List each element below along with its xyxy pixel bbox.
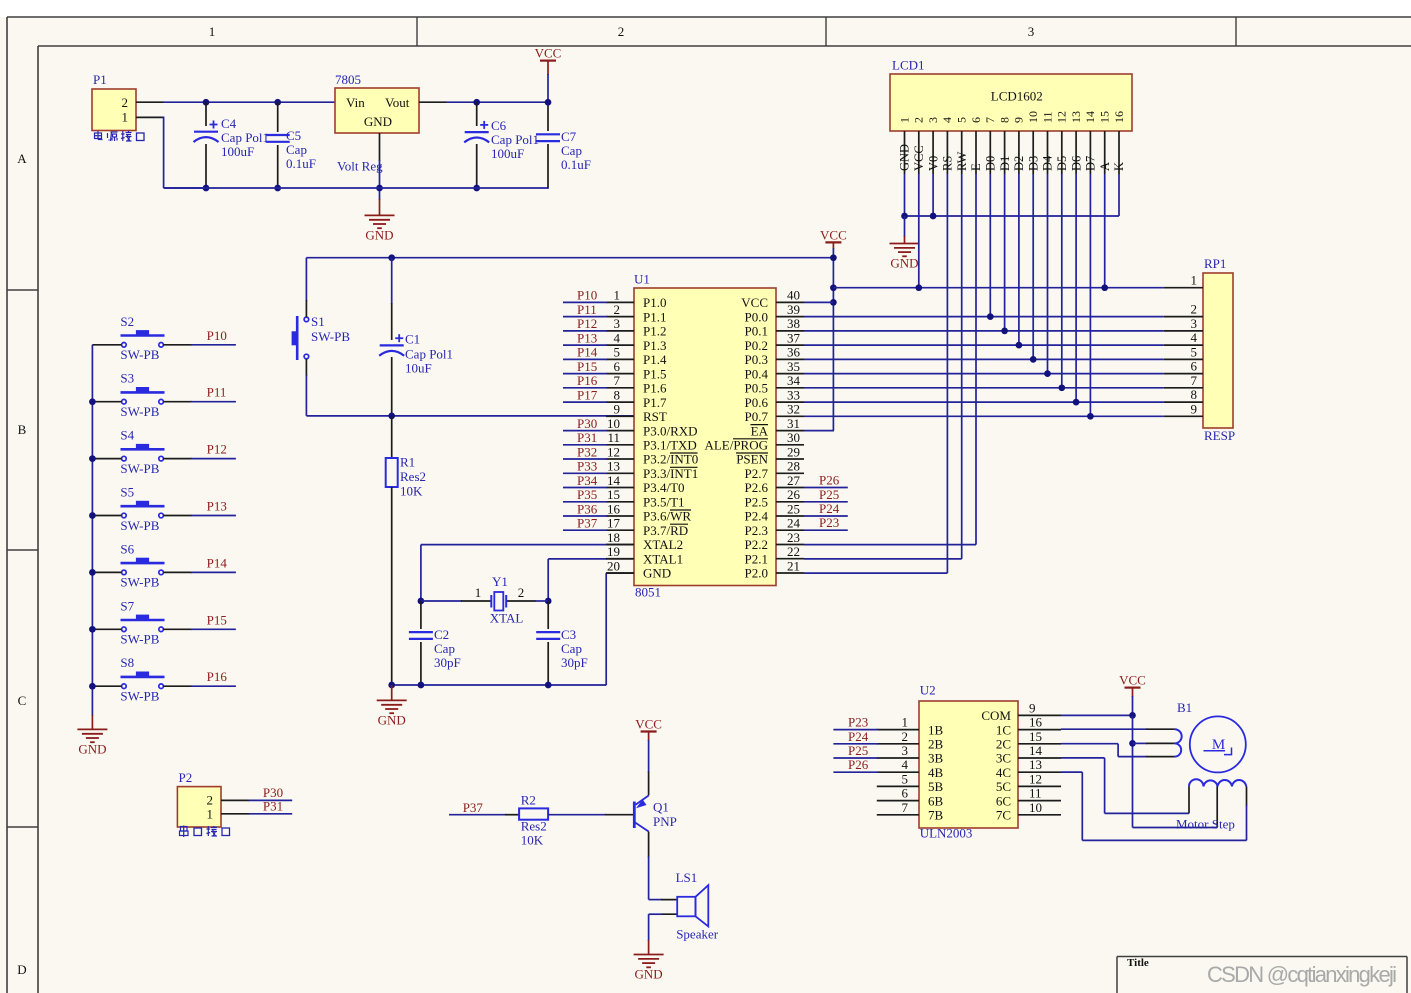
svg-text:7: 7 xyxy=(1191,373,1198,388)
svg-text:P1.0: P1.0 xyxy=(643,295,666,310)
junction C6 top xyxy=(473,99,480,106)
wire pin40 VCC xyxy=(804,301,833,303)
switch S5 xyxy=(120,485,164,533)
svg-text:18: 18 xyxy=(607,530,620,545)
wire net P37 xyxy=(563,516,607,531)
svg-text:13: 13 xyxy=(1029,757,1042,772)
svg-text:P37: P37 xyxy=(577,516,598,531)
svg-text:XTAL: XTAL xyxy=(490,610,524,625)
pin 2 U1 xyxy=(606,302,666,324)
svg-text:P26: P26 xyxy=(819,473,840,488)
svg-text:S2: S2 xyxy=(120,314,134,329)
wire VCC to RP1 pin1 xyxy=(833,287,1163,289)
wire net P23 xyxy=(804,515,848,530)
svg-text:VCC: VCC xyxy=(820,227,847,242)
svg-text:P2.0: P2.0 xyxy=(745,566,768,581)
svg-text:D2: D2 xyxy=(1012,156,1026,171)
junction rail S7 xyxy=(89,626,96,633)
wire S1 bottom to RST xyxy=(306,359,634,416)
svg-text:15: 15 xyxy=(607,487,620,502)
wire net P37 xyxy=(449,800,519,815)
wire 3C to coil xyxy=(1061,758,1189,814)
svg-text:P1.7: P1.7 xyxy=(643,395,667,410)
wire net P25 xyxy=(833,743,878,758)
svg-text:V0: V0 xyxy=(926,156,940,171)
wire net P31 xyxy=(221,799,292,814)
pin 8 U1 xyxy=(606,387,667,409)
svg-text:C1: C1 xyxy=(405,332,420,347)
svg-text:D4: D4 xyxy=(1041,155,1055,171)
svg-text:0.1uF: 0.1uF xyxy=(286,156,316,171)
switch S6 xyxy=(120,541,164,589)
svg-text:S6: S6 xyxy=(120,541,134,556)
svg-text:D1: D1 xyxy=(998,156,1012,171)
svg-text:P31: P31 xyxy=(263,799,283,814)
svg-text:9: 9 xyxy=(1012,117,1026,123)
wire S8 left xyxy=(92,685,121,687)
svg-text:26: 26 xyxy=(787,487,801,502)
svg-text:7805: 7805 xyxy=(335,72,361,87)
pin 13 LCD1 xyxy=(1069,111,1083,174)
net label P14 xyxy=(207,555,228,570)
motor coil xyxy=(1189,779,1247,827)
junction gnd rail left xyxy=(388,682,395,689)
pin 6 RP1 xyxy=(1164,359,1203,374)
svg-text:5: 5 xyxy=(902,771,909,786)
svg-text:R1: R1 xyxy=(400,455,415,470)
junction rail S6 xyxy=(89,569,96,576)
junction D6 P0.6 xyxy=(1073,399,1080,406)
svg-text:P12: P12 xyxy=(207,442,227,457)
wire P2.2 to LCD E xyxy=(804,174,976,545)
svg-text:6B: 6B xyxy=(928,793,944,808)
wire center tap leg xyxy=(1133,742,1175,744)
wire S7 left xyxy=(92,628,121,630)
wire LCD D2 down xyxy=(1018,174,1020,345)
junction VCC pin40 xyxy=(830,299,837,306)
pin 40 U1 xyxy=(741,288,804,310)
pin 3 LCD1 xyxy=(926,117,940,174)
wire net P36 xyxy=(563,501,607,516)
pin 1 RP1 xyxy=(1164,273,1203,288)
svg-text:6: 6 xyxy=(614,359,621,374)
svg-text:13: 13 xyxy=(607,459,620,474)
svg-text:P16: P16 xyxy=(577,373,598,388)
svg-text:4: 4 xyxy=(940,117,954,123)
svg-text:1C: 1C xyxy=(996,722,1011,737)
svg-text:SW-PB: SW-PB xyxy=(120,575,159,590)
svg-text:8: 8 xyxy=(614,387,621,402)
pin 12 U1 xyxy=(606,444,698,466)
svg-text:11: 11 xyxy=(1040,111,1054,123)
svg-text:32: 32 xyxy=(787,402,800,417)
pin 13 U2 xyxy=(996,757,1061,780)
svg-text:P25: P25 xyxy=(819,487,839,502)
pin 4 RP1 xyxy=(1164,330,1203,345)
wire net P34 xyxy=(563,473,607,488)
capacitor C6 xyxy=(464,102,539,188)
pin 1 U2 xyxy=(877,715,944,738)
svg-text:S1: S1 xyxy=(311,314,325,329)
svg-text:2: 2 xyxy=(902,729,909,744)
net label P13 xyxy=(207,499,227,514)
svg-text:B: B xyxy=(18,422,27,437)
svg-text:P2.6: P2.6 xyxy=(745,480,769,495)
pin 30 U1 xyxy=(704,430,804,452)
junction C4 top xyxy=(203,99,210,106)
svg-text:P26: P26 xyxy=(848,757,869,772)
speaker LS1 xyxy=(649,870,719,941)
svg-text:1: 1 xyxy=(207,806,214,821)
svg-text:23: 23 xyxy=(787,530,800,545)
junction LCD gnd pin1 xyxy=(901,213,908,220)
svg-text:E: E xyxy=(969,163,983,171)
junction reg GND xyxy=(376,185,383,192)
wire P0.1 row xyxy=(804,330,1164,332)
ground LCD xyxy=(890,216,920,271)
wire net P24 xyxy=(804,501,848,516)
svg-text:P11: P11 xyxy=(577,302,597,317)
junction rail S5 xyxy=(89,512,96,519)
svg-text:6: 6 xyxy=(969,117,983,123)
switch S3 xyxy=(120,371,164,419)
svg-text:P23: P23 xyxy=(848,715,868,730)
pin 3 RP1 xyxy=(1164,316,1203,331)
svg-text:XTAL1: XTAL1 xyxy=(643,551,683,566)
svg-text:P37: P37 xyxy=(463,800,484,815)
junction D0 P0.0 xyxy=(987,313,994,320)
capacitor C4 xyxy=(194,102,270,188)
svg-text:2: 2 xyxy=(122,95,129,110)
wire net P15 xyxy=(163,628,236,630)
svg-text:K: K xyxy=(1112,162,1126,171)
zone ticks left xyxy=(7,290,38,827)
svg-text:2: 2 xyxy=(1191,302,1198,317)
pin 3 U2 xyxy=(877,743,944,766)
pin 4 U1 xyxy=(606,330,666,352)
svg-text:RP1: RP1 xyxy=(1204,256,1226,271)
svg-text:D5: D5 xyxy=(1055,156,1069,171)
pin 22 U1 xyxy=(745,544,804,566)
svg-text:4: 4 xyxy=(1191,330,1198,345)
svg-text:2: 2 xyxy=(207,793,214,808)
svg-text:15: 15 xyxy=(1098,111,1112,123)
svg-text:CSDN @cqtianxingkeji: CSDN @cqtianxingkeji xyxy=(1207,962,1397,987)
regulator 7805 xyxy=(335,72,419,174)
svg-text:10K: 10K xyxy=(400,484,423,499)
svg-text:4C: 4C xyxy=(996,765,1011,780)
wire LCD D7 down xyxy=(1089,174,1091,416)
svg-text:8: 8 xyxy=(997,117,1011,123)
svg-text:24: 24 xyxy=(787,516,801,531)
wire net P15 xyxy=(563,359,607,374)
svg-text:P31: P31 xyxy=(577,430,597,445)
junction LCD VCC xyxy=(915,284,922,291)
svg-text:P24: P24 xyxy=(819,501,840,516)
svg-text:P3.2/INT0: P3.2/INT0 xyxy=(643,452,698,467)
svg-text:P15: P15 xyxy=(577,359,597,374)
pin 23 U1 xyxy=(745,530,804,552)
svg-text:ULN2003: ULN2003 xyxy=(920,825,973,840)
svg-text:P3.5/T1: P3.5/T1 xyxy=(643,495,685,510)
svg-text:P2.5: P2.5 xyxy=(745,495,768,510)
svg-text:VCC: VCC xyxy=(912,145,926,171)
junction VCC rail xyxy=(545,99,552,106)
svg-text:9: 9 xyxy=(614,402,621,417)
wire P0.3 row xyxy=(804,358,1164,360)
wire VCC vertical xyxy=(832,258,834,431)
svg-text:C5: C5 xyxy=(286,128,301,143)
svg-text:P3.7/RD: P3.7/RD xyxy=(643,523,688,538)
svg-text:VCC: VCC xyxy=(741,295,768,310)
svg-text:3: 3 xyxy=(614,316,621,331)
wire 7805 Vout to VCC xyxy=(419,101,548,103)
wire P0.6 row xyxy=(804,401,1164,403)
svg-text:2B: 2B xyxy=(928,737,944,752)
svg-text:7B: 7B xyxy=(928,808,944,823)
junction C5 top xyxy=(274,99,281,106)
wire R2 to Q1 base xyxy=(548,814,634,816)
svg-text:C7: C7 xyxy=(561,129,577,144)
svg-text:1: 1 xyxy=(1191,273,1198,288)
junction RST node xyxy=(388,413,395,420)
switch S1 xyxy=(292,314,351,360)
svg-text:7C: 7C xyxy=(996,808,1011,823)
transistor Q1 PNP xyxy=(634,772,677,832)
svg-text:2C: 2C xyxy=(996,737,1011,752)
svg-text:LCD1: LCD1 xyxy=(892,57,925,72)
ground buttons xyxy=(77,729,107,756)
svg-text:P12: P12 xyxy=(577,316,597,331)
svg-text:37: 37 xyxy=(787,330,801,345)
wire net P30 xyxy=(563,416,607,431)
pin 39 U1 xyxy=(745,302,804,324)
pin 2 U2 xyxy=(877,729,944,752)
pin 7 U1 xyxy=(606,373,667,395)
wire P2.0 to LCD RS xyxy=(804,174,947,573)
svg-text:1: 1 xyxy=(122,110,129,125)
svg-text:C: C xyxy=(18,693,27,708)
svg-text:8051: 8051 xyxy=(635,585,661,600)
svg-text:SW-PB: SW-PB xyxy=(120,404,159,419)
wire net P10 xyxy=(563,288,607,303)
svg-text:GND: GND xyxy=(78,741,106,756)
wire S2 left xyxy=(92,344,121,346)
svg-text:3: 3 xyxy=(1028,24,1035,39)
svg-text:SW-PB: SW-PB xyxy=(120,632,159,647)
pin 26 U1 xyxy=(745,487,804,509)
svg-text:2: 2 xyxy=(912,117,926,123)
svg-text:4B: 4B xyxy=(928,765,944,780)
svg-text:2: 2 xyxy=(518,585,525,600)
svg-text:5: 5 xyxy=(955,117,969,123)
pin 15 LCD1 xyxy=(1098,111,1112,174)
svg-text:VCC: VCC xyxy=(1119,673,1146,688)
svg-text:RS: RS xyxy=(941,156,955,171)
pin 6 U1 xyxy=(606,359,666,381)
P1 label 电源接口 xyxy=(95,131,145,141)
op IC U1 8051 body xyxy=(634,271,776,599)
svg-text:30pF: 30pF xyxy=(561,655,588,670)
svg-text:38: 38 xyxy=(787,316,800,331)
svg-text:1: 1 xyxy=(209,24,216,39)
svg-text:10uF: 10uF xyxy=(405,361,432,376)
wire LCD D4 down xyxy=(1047,174,1049,374)
pin 13 U1 xyxy=(606,459,698,481)
pin 10 U1 xyxy=(606,416,698,438)
svg-text:D: D xyxy=(17,962,26,977)
wire LCD D5 down xyxy=(1061,174,1063,388)
junction gnd rail C2 xyxy=(418,682,425,689)
svg-text:S7: S7 xyxy=(120,598,134,613)
wire LCD D3 down xyxy=(1032,174,1034,359)
junction D2 P0.2 xyxy=(1016,342,1023,349)
svg-text:P24: P24 xyxy=(848,729,869,744)
svg-text:PSEN: PSEN xyxy=(736,452,768,467)
capacitor C2 xyxy=(409,601,461,685)
svg-text:Cap Pol1: Cap Pol1 xyxy=(405,347,453,362)
wire net P26 xyxy=(804,473,848,488)
pin 9 U2 xyxy=(981,700,1061,723)
junction D3 P0.3 xyxy=(1030,356,1037,363)
wire net P10 xyxy=(163,344,236,346)
svg-text:Cap: Cap xyxy=(434,641,455,656)
wire 1C to motor xyxy=(1061,728,1175,730)
svg-text:A: A xyxy=(17,151,27,166)
pin 14 U1 xyxy=(606,473,685,495)
svg-text:GND: GND xyxy=(365,227,393,242)
capacitor C3 xyxy=(536,601,588,685)
svg-text:VCC: VCC xyxy=(535,46,562,61)
pin 8 RP1 xyxy=(1164,387,1203,402)
svg-text:P3.3/INT1: P3.3/INT1 xyxy=(643,466,698,481)
svg-text:1: 1 xyxy=(902,715,909,730)
svg-text:S8: S8 xyxy=(120,655,134,670)
svg-text:33: 33 xyxy=(787,387,800,402)
pin 6 U2 xyxy=(877,786,944,809)
net label P11 xyxy=(207,385,227,400)
resistor R1 xyxy=(386,416,426,685)
junction C6 bottom xyxy=(473,185,480,192)
pin 15 U1 xyxy=(606,487,685,509)
title block xyxy=(1117,957,1407,993)
wire 7805 GND down xyxy=(379,133,381,215)
pin 7 U2 xyxy=(877,800,944,823)
wire xtal ground rail xyxy=(392,684,607,686)
pin 21 U1 xyxy=(745,558,804,580)
svg-text:GND: GND xyxy=(898,144,912,171)
wire net P11 xyxy=(163,401,236,403)
wire net P14 xyxy=(163,571,236,573)
wire XTAL1 route xyxy=(548,559,634,601)
svg-text:8: 8 xyxy=(1191,387,1198,402)
wire LCD D0 down xyxy=(989,174,991,317)
pin 36 U1 xyxy=(745,345,804,367)
svg-text:SW-PB: SW-PB xyxy=(120,461,159,476)
LCD module LCD1 body xyxy=(890,57,1132,131)
pin 11 U1 xyxy=(606,430,697,452)
pin 16 U2 xyxy=(996,715,1061,738)
wire net P17 xyxy=(563,387,607,402)
ground regulator xyxy=(365,215,395,242)
svg-text:S3: S3 xyxy=(120,371,134,386)
wire Q1 collector down xyxy=(648,832,650,900)
zone numbers xyxy=(209,24,1035,39)
svg-text:P10: P10 xyxy=(207,328,227,343)
svg-text:P1.2: P1.2 xyxy=(643,324,666,339)
pin 15 U2 xyxy=(996,729,1061,752)
wire button ground rail xyxy=(91,345,93,730)
junction D4 P0.4 xyxy=(1044,370,1051,377)
svg-text:P2.2: P2.2 xyxy=(745,537,768,552)
wire P1 pin1 down xyxy=(136,117,206,189)
pin 12 LCD1 xyxy=(1055,111,1069,174)
wire S5 left xyxy=(92,515,121,517)
watermark xyxy=(1207,962,1397,987)
junction C1 top xyxy=(388,254,395,261)
svg-text:RW: RW xyxy=(955,151,969,171)
svg-text:Res2: Res2 xyxy=(521,818,547,833)
pin 1 U1 xyxy=(606,288,666,310)
junction crystal right xyxy=(545,598,552,605)
wire VCC vertical motor xyxy=(1133,715,1218,827)
svg-text:P25: P25 xyxy=(848,743,868,758)
pin 34 U1 xyxy=(745,373,804,395)
svg-text:A: A xyxy=(1098,162,1112,171)
svg-text:P16: P16 xyxy=(207,669,228,684)
pin 16 U1 xyxy=(606,501,691,523)
svg-text:17: 17 xyxy=(607,516,621,531)
wire S1 top xyxy=(305,258,307,317)
wire LCD VCC down xyxy=(918,174,920,288)
pin 4 LCD1 xyxy=(940,117,954,174)
svg-text:LS1: LS1 xyxy=(676,870,698,885)
svg-text:SW-PB: SW-PB xyxy=(120,689,159,704)
pin 29 U1 xyxy=(736,444,804,466)
P2 label 串口接口 xyxy=(180,826,230,838)
svg-text:31: 31 xyxy=(787,416,800,431)
pin 10 U2 xyxy=(996,800,1061,823)
svg-text:P0.1: P0.1 xyxy=(745,324,768,339)
pin 25 U1 xyxy=(745,501,804,523)
svg-text:16: 16 xyxy=(1112,111,1126,123)
connector P1 xyxy=(92,72,136,131)
pin 38 U1 xyxy=(745,316,804,338)
svg-text:VCC: VCC xyxy=(635,717,662,732)
svg-text:6: 6 xyxy=(902,786,909,801)
wire net P12 xyxy=(563,316,607,331)
svg-text:P1: P1 xyxy=(93,72,107,87)
svg-text:5: 5 xyxy=(614,345,621,360)
svg-text:35: 35 xyxy=(787,359,800,374)
pin 28 U1 xyxy=(745,459,804,481)
svg-text:GND: GND xyxy=(635,967,663,982)
svg-text:Cap: Cap xyxy=(561,641,582,656)
svg-text:P0.4: P0.4 xyxy=(745,366,769,381)
zone letters xyxy=(17,151,27,977)
svg-text:P3.4/T0: P3.4/T0 xyxy=(643,480,685,495)
svg-text:13: 13 xyxy=(1069,111,1083,123)
svg-text:U1: U1 xyxy=(634,271,650,286)
connector P2 xyxy=(177,770,221,827)
title label xyxy=(1127,957,1149,969)
svg-text:P3.0/RXD: P3.0/RXD xyxy=(643,423,698,438)
svg-text:1: 1 xyxy=(475,585,482,600)
junction VCC center tap xyxy=(1129,740,1136,747)
wire net P35 xyxy=(563,487,607,502)
pin 17 U1 xyxy=(606,516,688,538)
pin 7 RP1 xyxy=(1164,373,1203,388)
